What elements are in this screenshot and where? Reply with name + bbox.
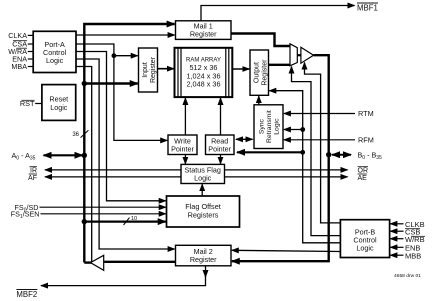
svg-text:OR: OR — [358, 168, 369, 175]
node: B bus junction at B0-B35 port — [326, 152, 331, 157]
wire: FS0/SD input line — [40, 206, 166, 208]
svg-text:AE: AE — [358, 175, 368, 182]
wire: Port-B w2 up to mux enable — [292, 67, 341, 236]
block: RAM ARRAY memory — [175, 48, 233, 97]
wire: RTM input line — [284, 113, 355, 115]
svg-text:Register: Register — [190, 255, 217, 264]
svg-text:Register: Register — [190, 30, 217, 39]
svg-text:MBA: MBA — [11, 62, 27, 71]
svg-text:Register: Register — [261, 59, 268, 86]
block: Mail 1 Register — [176, 21, 232, 40]
wire: CLKB arrow into Port-B — [390, 223, 403, 225]
wire: A0-A35 bidirectional stub — [44, 154, 83, 156]
wire: Mail 2 Register output to port-A read buffer (thick) — [104, 261, 175, 263]
wire: Read Pointer / Sync Retransmit bidirectional link — [236, 138, 253, 140]
node: junction of feedback vertical with B data line — [300, 150, 305, 155]
svg-text:MBB: MBB — [405, 251, 421, 260]
wire: MBF1 output from Mail 1 Register top — [201, 6, 355, 21]
wire: B data line into Read Pointer (thick) — [237, 151, 303, 153]
svg-text:Pointer: Pointer — [208, 144, 231, 153]
buffer: port-A mail2 read buffer (left pointing) — [91, 255, 104, 270]
svg-text:MBF1: MBF1 — [357, 3, 378, 12]
wire: Input Register to RAM array — [158, 68, 174, 70]
wire: FS1/SEN input line — [41, 213, 166, 215]
wire: Port-A wire w2 down to Write Pointer — [76, 44, 167, 140]
wire: bus branch into Input Register (data) — [84, 82, 137, 84]
wire: Port-A data bus (A0-A35 vertical bus, top run to Mail 1 Register) — [84, 24, 174, 263]
block: Reset Logic U2 — [42, 85, 76, 121]
label: OR (active low) — [358, 167, 369, 175]
wire: Port-A wire w5 down to output buffer junction — [76, 67, 92, 263]
wire: Port-A wire w3 down to Flag Offset Registers input 1 — [76, 52, 166, 201]
wire: Mail 1 Register output to mux input (thick) — [231, 34, 290, 47]
wire: MBF2 output drop from Mail 2 Register — [205, 266, 207, 277]
wire: MBF2 output elbow segment — [41, 276, 206, 286]
svg-text:Output: Output — [253, 62, 260, 83]
wire: IR flag output line — [45, 169, 181, 171]
block: Sync Retransmit Logic — [254, 105, 283, 149]
svg-text:Input: Input — [142, 62, 149, 78]
wire: Port-B w3 up to Output Register feedback — [269, 91, 340, 243]
svg-text:Logic: Logic — [46, 56, 64, 65]
wire: output buffer to B bus and Mail 2 Register (thick) — [232, 55, 329, 261]
svg-text:Logic: Logic — [194, 173, 212, 182]
node: junction on w2 feeding Input Register — [112, 53, 117, 58]
svg-text:AF: AF — [28, 175, 37, 182]
wire: B0-B35 bidirectional stub — [332, 154, 351, 156]
wire: CSB arrow into Port-B — [390, 230, 403, 232]
wire: Flag Offset Registers up to Status Flag Logic — [201, 184, 203, 196]
wire: bus branch (10-bit) into Flag Offset Registers input 4 — [84, 221, 165, 223]
wire: branch into Sync Retransmit Logic middle input — [284, 129, 303, 131]
wire: ENA tick — [28, 58, 33, 60]
svg-text:B0 - B35: B0 - B35 — [358, 150, 383, 160]
block: Input Register — [139, 48, 158, 92]
label: width 10 slash — [124, 218, 130, 225]
wire: mux to output buffer link (thick) — [297, 54, 301, 56]
svg-text:MBF2: MBF2 — [16, 290, 37, 299]
svg-text:FS1/SEN: FS1/SEN — [11, 210, 40, 220]
wire: W/RB arrow into Port-B — [390, 238, 403, 240]
mux: 2-to-1 output mux — [290, 44, 297, 66]
wire: Port-A wire w4 down to Mail 2 Register left input — [76, 59, 175, 249]
wire: AE flag output line — [225, 176, 348, 178]
label: W/RA (read active low) — [8, 47, 27, 56]
label: IR (active low) — [30, 167, 38, 175]
wire: Port-B w1 up to output buffer enable — [305, 63, 341, 223]
svg-text:Logic: Logic — [356, 244, 374, 253]
wire: Write Pointer down to Status Flag Logic — [184, 155, 186, 164]
node: junction on feedback vertical to Sync Retransmit — [300, 127, 305, 132]
wire: W/RA tick — [28, 51, 33, 53]
label: bus width 36 slash — [81, 130, 89, 137]
wire: Read Pointer up to RAM array — [220, 98, 222, 135]
wire: Output Register to mux lower input (thick) — [269, 64, 291, 66]
node: bus junction at A0-A35 port — [82, 153, 87, 158]
label: MBF1 (active low) — [357, 3, 378, 12]
wire: Write Pointer up to RAM array — [184, 98, 186, 135]
svg-text:Registers: Registers — [188, 211, 219, 220]
block: Write Pointer — [168, 135, 197, 155]
wire: Port-B w4 to Mail 2 Register right input — [232, 250, 341, 251]
wire: Read Pointer down to Status Flag Logic — [220, 155, 222, 164]
buffer: port-B output tri-state buffer — [301, 47, 314, 63]
wire: Port-A wire w1 to Mail 1 Register — [76, 34, 175, 36]
svg-text:4658 drw 01: 4658 drw 01 — [394, 273, 421, 279]
wire: RFM input line — [284, 139, 355, 141]
wire: OR flag output line — [225, 169, 348, 171]
label: W/RB (read active low) — [405, 235, 425, 244]
node: bus junction feeding flag offset bus — [82, 219, 87, 224]
wire: ENB arrow into Port-B — [390, 246, 403, 248]
block: Status Flag Logic — [181, 164, 225, 183]
wire: CSA tick — [28, 43, 33, 45]
svg-text:Retransmit: Retransmit — [266, 110, 273, 143]
block: Port-A Control Logic U1 — [33, 31, 76, 72]
node: bus junction feeding Input Register — [82, 81, 87, 86]
wire: RAM array to Output Register — [232, 68, 249, 70]
svg-text:Logic: Logic — [50, 103, 68, 112]
svg-text:Logic: Logic — [274, 118, 281, 135]
wire: bus link to mail2 read buffer apex — [84, 261, 91, 263]
block: Output Register — [250, 50, 269, 95]
block: Port-B Control Logic — [340, 220, 389, 258]
block: Mail 2 Register — [176, 245, 232, 265]
wire: MBA tick — [28, 66, 33, 68]
block: Read Pointer — [206, 135, 235, 155]
svg-text:10: 10 — [131, 216, 137, 222]
label: AF (active low) — [28, 174, 37, 182]
wire: AF flag output line — [45, 176, 181, 178]
svg-text:Sync: Sync — [259, 118, 266, 134]
wire: Sync Retransmit up to Output Register — [258, 96, 260, 105]
svg-text:RTM: RTM — [358, 109, 374, 118]
wire: MBB arrow into Port-B — [390, 254, 403, 256]
label: RST (active low) — [20, 99, 35, 108]
svg-text:Pointer: Pointer — [171, 144, 194, 153]
label: CSB (active low) — [405, 227, 420, 236]
wire: branch from w2 into Input Register — [114, 55, 138, 57]
svg-text:RFM: RFM — [358, 135, 374, 144]
label: CSA (active low) — [12, 40, 27, 49]
svg-text:Register: Register — [150, 56, 157, 83]
svg-text:A0 - A35: A0 - A35 — [12, 151, 36, 161]
svg-text:36: 36 — [72, 132, 79, 138]
svg-text:2,048 x 36: 2,048 x 36 — [186, 80, 220, 89]
label: MBF2 (active low) — [16, 290, 37, 299]
wire: RST tick into Reset Logic — [35, 103, 42, 105]
block: Flag Offset Registers — [167, 196, 240, 227]
wire: CLKA tick — [28, 34, 33, 36]
svg-text:IR: IR — [30, 168, 37, 175]
label: AE (active low) — [358, 174, 368, 182]
